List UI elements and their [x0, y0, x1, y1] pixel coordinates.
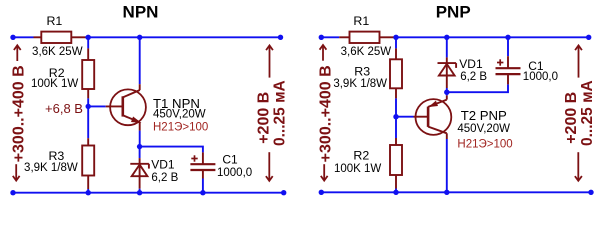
value 450V,20W PNP: [457, 123, 510, 135]
svg-text:VD1: VD1: [459, 57, 483, 71]
arrow down PNP input: [321, 164, 328, 180]
wire base node down PNP: [395, 117, 397, 138]
svg-text:H21Э>100: H21Э>100: [153, 121, 208, 133]
wire zener bottom PNP: [446, 88, 448, 92]
node top-right PNP output: [586, 35, 591, 40]
value 450V,20W: [153, 109, 206, 121]
value 6,2 В PNP: [460, 71, 487, 83]
resistor R2: [82, 48, 94, 98]
label R2: [49, 66, 65, 80]
node R2 bottom PNP: [393, 190, 398, 195]
resistor R3: [82, 138, 94, 189]
wire C1 bottom: [202, 179, 204, 193]
label R2 PNP: [353, 149, 369, 163]
svg-text:H21Э>100: H21Э>100: [457, 139, 512, 151]
value 3,9K 1/8W: [24, 162, 78, 174]
arrow down NPN input: [13, 164, 20, 180]
node C1 bottom: [200, 190, 205, 195]
svg-text:3,9K 1/8W: 3,9K 1/8W: [24, 162, 78, 174]
resistor R3 PNP: [390, 48, 402, 98]
svg-text:R2: R2: [353, 149, 369, 163]
label +200 В right PNP: [563, 92, 580, 144]
svg-text:R1: R1: [46, 14, 62, 28]
arrow down PNP output: [575, 152, 582, 181]
label +200 В right NPN: [256, 92, 273, 144]
value 1000,0: [217, 167, 252, 179]
wire emitter node to C1: [140, 147, 203, 153]
node bottom-right PNP output: [588, 190, 593, 195]
svg-text:+300..+400 В: +300..+400 В: [318, 65, 335, 162]
svg-text:R3: R3: [48, 149, 64, 163]
label T2 PNP: [461, 108, 507, 123]
svg-text:+200 В: +200 В: [256, 92, 273, 144]
value 100K 1W PNP: [334, 163, 381, 175]
svg-text:450V,20W: 450V,20W: [457, 123, 510, 135]
wire zener top PNP: [446, 37, 448, 57]
svg-text:+300..+400 В: +300..+400 В: [10, 65, 27, 162]
wire emitter up PNP: [446, 92, 448, 95]
node top-right NPN output: [278, 35, 283, 40]
wire base node down: [87, 106, 89, 138]
svg-text:PNP: PNP: [436, 3, 471, 22]
wire bottom rail NPN: [13, 192, 284, 194]
node zener top PNP: [444, 35, 449, 40]
svg-text:0...25 мА: 0...25 мА: [272, 80, 289, 146]
svg-text:100K 1W: 100K 1W: [334, 163, 381, 175]
label VD1 PNP: [459, 57, 483, 71]
node emitter junction: [137, 144, 142, 149]
wire bottom rail PNP: [321, 191, 591, 193]
node collector bottom PNP: [444, 190, 449, 195]
zener VD1 PNP: [438, 57, 457, 88]
node B base node: [86, 104, 91, 109]
svg-text:C1: C1: [222, 153, 238, 167]
svg-text:3,6K 25W: 3,6K 25W: [341, 46, 392, 58]
label R3 PNP: [354, 65, 370, 79]
wire base to transistor: [88, 105, 106, 107]
resistor R1: [34, 32, 86, 43]
svg-text:R1: R1: [353, 14, 369, 28]
svg-text:1000,0: 1000,0: [523, 71, 558, 83]
label VD1: [151, 158, 175, 172]
arrow up PNP output: [575, 45, 582, 77]
label +6,8 В: [45, 101, 83, 116]
wire collector: [139, 37, 141, 84]
label +300..+400 В left NPN: [10, 65, 27, 162]
label C1 PNP: [528, 59, 544, 73]
node collector top rail: [137, 35, 142, 40]
wire R2 to bottom rail PNP: [395, 189, 397, 193]
svg-text:450V,20W: 450V,20W: [153, 109, 206, 121]
arrow up NPN output: [266, 45, 273, 77]
svg-text:+6,8 В: +6,8 В: [45, 101, 83, 116]
wire emitter down: [139, 131, 141, 147]
svg-text:1000,0: 1000,0: [217, 167, 252, 179]
wire R3 bottom to base node PNP: [395, 98, 397, 116]
label 0...25 мА right NPN: [272, 80, 289, 146]
value H21Э>100: [153, 121, 208, 133]
wire R2 top: [87, 37, 89, 48]
svg-text:3,9K 1/8W: 3,9K 1/8W: [333, 78, 387, 90]
zener VD1: [130, 158, 149, 189]
label 0...25 мА right PNP: [579, 80, 596, 146]
label C1: [222, 153, 238, 167]
node emitter junction PNP: [444, 90, 449, 95]
wire base to transistor PNP: [396, 116, 414, 118]
wire top rail PNP: [321, 36, 588, 38]
label R1 PNP: [353, 14, 369, 28]
resistor R1 PNP: [339, 32, 393, 43]
svg-text:VD1: VD1: [151, 158, 175, 172]
node top-left PNP input: [319, 35, 324, 40]
wire collector down PNP: [446, 139, 448, 192]
svg-text:T2 PNP: T2 PNP: [461, 108, 507, 123]
wire zener bottom: [139, 189, 141, 193]
value 6,2 В: [151, 172, 178, 184]
svg-text:100K 1W: 100K 1W: [31, 78, 78, 90]
resistor R2 PNP: [390, 138, 402, 189]
title PNP: [436, 3, 471, 22]
svg-text:R3: R3: [354, 65, 370, 79]
wire emitter node to C1 PNP: [447, 84, 508, 92]
capacitor C1 PNP: [496, 37, 521, 84]
node base PNP: [393, 114, 398, 119]
title NPN: [123, 3, 159, 22]
wire top rail NPN: [13, 36, 281, 38]
wire R3 to bottom rail: [87, 189, 89, 193]
value 3,6K 25W PNP: [341, 46, 392, 58]
transistor T2: [414, 95, 452, 139]
node junction R1/R3 top rail PNP: [393, 35, 398, 40]
wire zener top: [139, 147, 141, 159]
arrow up PNP input: [320, 45, 327, 61]
node R3 bottom: [86, 190, 91, 195]
capacitor C1: [190, 152, 215, 178]
svg-text:NPN: NPN: [123, 3, 159, 22]
svg-text:+200 В: +200 В: [563, 92, 580, 144]
wire R2 bottom to base node: [87, 98, 89, 106]
value H21Э>100 PNP: [457, 139, 512, 151]
value 100K 1W: [31, 78, 78, 90]
svg-text:6,2 В: 6,2 В: [151, 172, 178, 184]
label R1: [46, 14, 62, 28]
svg-text:6,2 В: 6,2 В: [460, 71, 487, 83]
node bottom-right NPN output: [281, 190, 286, 195]
node bottom-left NPN: [10, 190, 15, 195]
svg-text:3,6K 25W: 3,6K 25W: [32, 46, 83, 58]
wire R3 top PNP: [395, 37, 397, 48]
node zener bottom: [137, 190, 142, 195]
label R3: [48, 149, 64, 163]
node top-left NPN input: [10, 35, 15, 40]
arrow up NPN input: [14, 45, 21, 61]
node C1 top PNP: [505, 35, 510, 40]
value 3,6K 25W: [32, 46, 83, 58]
arrow down NPN output: [266, 152, 273, 181]
svg-text:0...25 мА: 0...25 мА: [579, 80, 596, 146]
value 3,9K 1/8W PNP: [333, 78, 387, 90]
node bottom-left PNP: [319, 190, 324, 195]
label T1 NPN: [153, 96, 200, 111]
label +300..+400 В left PNP: [318, 65, 335, 162]
node A junction R1/R2 top rail: [86, 35, 91, 40]
value 1000,0 PNP: [523, 71, 558, 83]
transistor T1: [106, 84, 146, 130]
